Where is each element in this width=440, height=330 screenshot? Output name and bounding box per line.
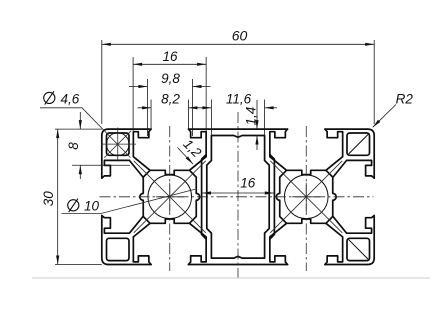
corner boss square top-right xyxy=(347,133,370,155)
slot left side xyxy=(102,160,143,178)
dim 30 line xyxy=(57,129,59,264)
leader R2 xyxy=(373,105,396,128)
slot cell2 bottom xyxy=(270,223,288,264)
dim 1,4 lines xyxy=(256,100,258,150)
dim 16 mid line xyxy=(202,192,274,194)
bottom-right corner arc xyxy=(368,258,375,265)
corner boss square bottom-left xyxy=(107,238,130,260)
corner boss square bottom-right xyxy=(347,238,370,260)
centre cross core2 xyxy=(292,183,320,211)
channel mid-wall outer edges xyxy=(202,155,207,239)
svg-text:9,8: 9,8 xyxy=(161,71,180,86)
svg-text:8,2: 8,2 xyxy=(161,91,180,106)
dim 8,2 ext lines xyxy=(151,100,188,130)
vertical centre line profile middle xyxy=(237,112,239,278)
svg-text:60: 60 xyxy=(232,28,248,44)
anti-diagonal centre mark of d4.6 xyxy=(104,131,131,158)
arrows dim 8,2 xyxy=(142,106,151,109)
top-left corner arc xyxy=(102,129,109,136)
arrows dim 16 mid xyxy=(202,191,211,194)
arrows dim 9,8 xyxy=(138,85,147,88)
slot right side xyxy=(333,160,374,178)
core hole circle cell2 (d10) xyxy=(284,175,328,219)
dim 11,6 tail right xyxy=(265,107,277,109)
svg-text:30: 30 xyxy=(41,191,56,207)
dim 9,8 ext lines xyxy=(147,79,192,136)
dim 60 ext lines xyxy=(102,40,374,124)
arrows dim 11,6 xyxy=(202,106,211,109)
corner boss square top-left xyxy=(107,133,130,155)
dim 9,8 line with outside tails xyxy=(129,86,211,88)
dim 8 ext line bottom xyxy=(72,164,130,166)
right face xyxy=(373,136,375,258)
svg-text:16: 16 xyxy=(162,49,178,64)
faint baseline xyxy=(32,277,430,279)
bottom-left corner arc xyxy=(102,258,109,265)
top face xyxy=(108,128,367,130)
core cavity cell2 xyxy=(276,170,306,197)
core hole circle cell1 (d10) xyxy=(148,175,192,219)
bottom face xyxy=(108,264,367,266)
leader of d10 xyxy=(62,189,196,213)
svg-text:4,6: 4,6 xyxy=(61,92,80,107)
dim 8 lines xyxy=(79,112,81,179)
diameter symbol of 4,6 xyxy=(44,91,55,104)
svg-text:10: 10 xyxy=(84,199,100,214)
centre cross core1 xyxy=(156,183,184,211)
dim 60 line xyxy=(102,43,374,45)
vertical centre line cell2 xyxy=(305,126,307,271)
slot cell1 bottom xyxy=(133,223,151,264)
svg-text:11,6: 11,6 xyxy=(226,91,252,106)
top-right corner arc xyxy=(368,129,375,136)
svg-text:1,4: 1,4 xyxy=(244,107,259,126)
arrows dim 8 xyxy=(79,120,82,129)
diagonal centre lines core1 xyxy=(134,161,206,233)
arrow 1,2 xyxy=(186,156,194,165)
dim 8,2 line tails xyxy=(138,107,212,109)
central channel cavity xyxy=(207,136,269,259)
leader 1,2 xyxy=(178,148,194,165)
core cavity cell1 xyxy=(140,170,170,197)
vertical centre line cell1 xyxy=(169,126,171,271)
diagonal centre lines core2 xyxy=(270,161,342,233)
d4.6 hole circle in top-left boss xyxy=(106,133,129,156)
arrows dim 1,4 xyxy=(255,120,258,129)
arrows dim 60 xyxy=(102,43,111,46)
dim 30 / 8 ext lines top+bottom xyxy=(55,129,102,264)
diagonal mark top-right boss xyxy=(349,135,368,154)
svg-text:8: 8 xyxy=(66,142,81,150)
dim 16 top line xyxy=(133,63,206,65)
dim 16 top ext lines xyxy=(133,57,206,131)
diagonal mark bottom-right boss xyxy=(349,240,368,259)
horizontal centre line xyxy=(100,196,374,198)
slot cell1 top xyxy=(133,129,151,170)
svg-text:16: 16 xyxy=(240,175,256,190)
centre lines of d4.6 hole xyxy=(101,128,136,162)
svg-text:R2: R2 xyxy=(396,92,414,107)
leader of d4.6 xyxy=(40,108,131,158)
left face xyxy=(101,136,103,258)
diameter symbol of 10 xyxy=(68,199,79,212)
slot cell2 top xyxy=(270,129,288,170)
dim 11,6 ext lines xyxy=(211,100,264,136)
arrow R2 xyxy=(372,120,381,129)
arrows dim 30 xyxy=(56,129,59,138)
arrows dim 16 top xyxy=(133,63,142,66)
